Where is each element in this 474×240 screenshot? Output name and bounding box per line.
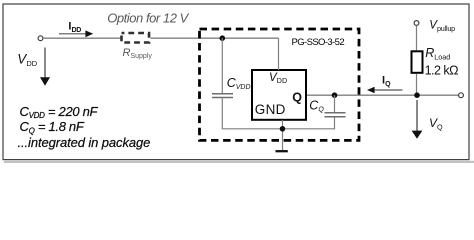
ground xyxy=(276,150,288,152)
svg-text:PG-SSO-3-52: PG-SSO-3-52 xyxy=(292,37,345,48)
label 1.2 kOhm xyxy=(425,64,459,78)
svg-text:Q: Q xyxy=(292,90,302,104)
label RLoad xyxy=(425,46,450,62)
voltage arrow VQ xyxy=(412,100,423,139)
label VDD xyxy=(17,52,37,69)
note CVDD value xyxy=(20,104,99,120)
node Vpullup terminal xyxy=(414,21,419,26)
label pin Q xyxy=(292,90,302,104)
wire CQ to ground rail xyxy=(285,117,335,128)
wire RLoad to output node xyxy=(416,74,418,95)
label Vpullup xyxy=(429,20,455,34)
label IDD xyxy=(68,21,81,34)
label CVDD xyxy=(227,76,251,91)
wire CVDD to ground rail xyxy=(222,98,282,129)
junction node Q to CQ xyxy=(332,92,338,98)
label PG-SSO-3-52 xyxy=(292,37,345,48)
capacitor CQ xyxy=(325,113,346,117)
label VQ xyxy=(429,116,443,132)
package boundary PG-SSO-3-52 (dashed box) xyxy=(200,29,360,140)
wire junction down to CVDD xyxy=(221,38,223,93)
node VDD input terminal xyxy=(38,36,43,41)
wire CQ top xyxy=(334,95,336,112)
junction node VDD net xyxy=(220,35,226,41)
capacitor CVDD xyxy=(212,94,233,98)
wire VDD input to RSupply xyxy=(43,37,121,39)
op-amp U1 sensor IC box xyxy=(252,70,306,120)
resistor RLoad xyxy=(412,51,423,73)
current arrow IDD xyxy=(59,30,93,37)
junction node VQ output xyxy=(414,92,420,98)
junction node GND net xyxy=(280,126,286,132)
svg-text:...integrated in package: ...integrated in package xyxy=(18,135,151,150)
wire GND pin xyxy=(282,120,284,150)
label pin VDD xyxy=(269,72,287,85)
wire Q output xyxy=(307,94,459,96)
label Option for 12 V xyxy=(107,10,189,25)
note integrated in package xyxy=(18,135,151,150)
resistor RSupply (optional, dashed) xyxy=(122,33,150,43)
label RSupply xyxy=(123,47,153,60)
current arrow IQ xyxy=(367,87,403,93)
voltage arrow VDD xyxy=(40,48,50,86)
wire VDD pin xyxy=(278,38,280,70)
label IQ xyxy=(382,75,391,88)
wire RSupply to VDD pin xyxy=(151,37,279,39)
note CQ value xyxy=(20,119,85,135)
svg-text:1.2 kΩ: 1.2 kΩ xyxy=(425,64,459,78)
svg-text:Option for 12 V: Option for 12 V xyxy=(107,10,189,25)
wire Vpullup to RLoad xyxy=(416,25,418,50)
label CQ xyxy=(309,98,324,113)
label pin GND xyxy=(255,102,286,117)
svg-text:GND: GND xyxy=(255,102,286,117)
node VQ terminal xyxy=(459,93,464,98)
